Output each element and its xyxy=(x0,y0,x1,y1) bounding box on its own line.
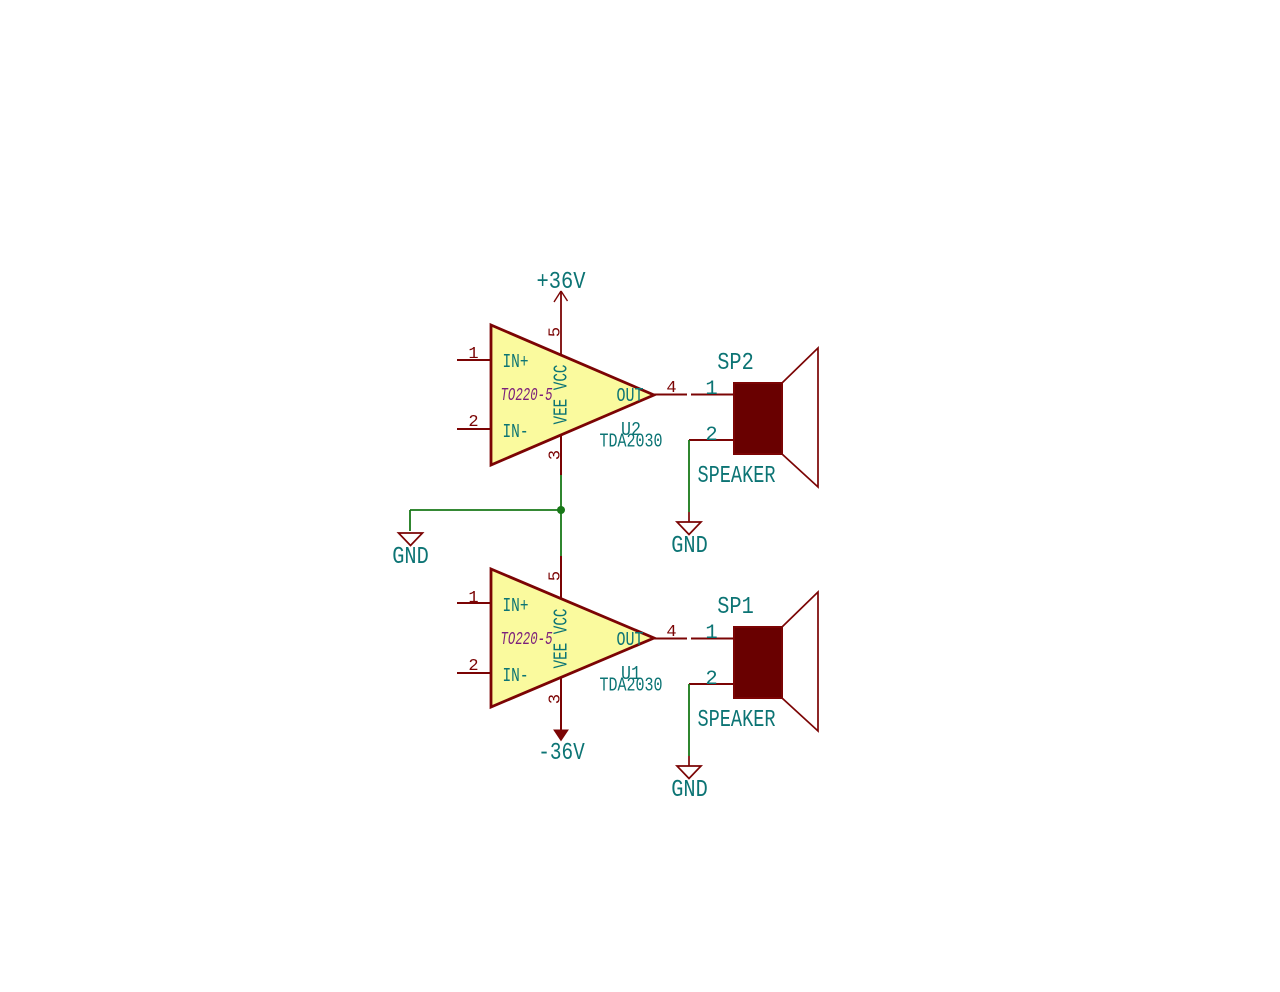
ground symbol SP2 xyxy=(677,512,701,535)
svg-text:2: 2 xyxy=(468,657,478,676)
svg-text:1: 1 xyxy=(468,345,478,364)
SP1 pin 2 line xyxy=(689,683,734,685)
U1 pin 3 line xyxy=(560,677,562,731)
wire SP1 pin2 to ground xyxy=(688,684,690,756)
U1 pin 1 wire stub xyxy=(457,602,491,604)
U1 pin 4 line xyxy=(654,638,687,640)
op-amp U1 body xyxy=(491,569,654,707)
ground symbol SP1 xyxy=(677,756,701,779)
svg-text:IN+: IN+ xyxy=(503,595,529,617)
svg-text:2: 2 xyxy=(468,413,478,432)
svg-text:2: 2 xyxy=(705,424,717,447)
SP2 cone xyxy=(782,348,818,487)
svg-text:4: 4 xyxy=(666,379,676,398)
svg-text:TO220-5: TO220-5 xyxy=(501,386,553,406)
svg-text:TDA2030: TDA2030 xyxy=(600,675,663,697)
svg-text:3: 3 xyxy=(547,694,566,704)
svg-text:OUT: OUT xyxy=(617,629,644,651)
U2 pin 1 wire stub xyxy=(457,359,491,361)
SP1 pin 1 line xyxy=(691,638,734,640)
svg-text:1: 1 xyxy=(705,378,717,401)
svg-text:SP1: SP1 xyxy=(717,594,754,621)
svg-text:3: 3 xyxy=(547,450,566,460)
wire U2 pin3 to junction xyxy=(560,475,562,510)
wire junction to U1 pin5 xyxy=(560,510,562,556)
svg-text:SPEAKER: SPEAKER xyxy=(698,463,776,490)
svg-text:VEE VCC: VEE VCC xyxy=(551,609,573,669)
SP2 pin 1 line xyxy=(691,394,734,396)
svg-text:GND: GND xyxy=(392,544,429,571)
op-amp U2 body xyxy=(491,325,654,465)
power symbol +36V arrow xyxy=(554,291,568,355)
svg-text:GND: GND xyxy=(671,533,708,560)
svg-text:1: 1 xyxy=(705,622,717,645)
SP1 body rectangle xyxy=(734,627,782,698)
svg-text:4: 4 xyxy=(666,623,676,642)
U1 pin 2 wire stub xyxy=(457,672,491,674)
svg-text:+36V: +36V xyxy=(537,269,587,296)
U2 pin 3 line xyxy=(560,436,562,475)
svg-text:5: 5 xyxy=(547,571,566,581)
wire down to GND symbol xyxy=(409,510,411,531)
ground symbol left xyxy=(399,533,423,546)
SP2 body rectangle xyxy=(734,383,782,454)
SP1 cone xyxy=(782,592,818,731)
SP2 pin 2 line xyxy=(689,439,734,441)
svg-text:1: 1 xyxy=(468,589,478,608)
wire SP2 pin2 to ground xyxy=(688,440,690,512)
junction dot xyxy=(557,506,565,514)
svg-text:TO220-5: TO220-5 xyxy=(501,630,553,650)
wire junction to GND (horizontal) xyxy=(410,509,561,511)
svg-text:5: 5 xyxy=(547,327,566,337)
svg-text:GND: GND xyxy=(671,777,708,804)
svg-text:IN+: IN+ xyxy=(503,351,529,373)
svg-text:-36V: -36V xyxy=(538,740,585,767)
svg-text:2: 2 xyxy=(705,668,717,691)
svg-text:SPEAKER: SPEAKER xyxy=(698,707,776,734)
power symbol -36V arrow xyxy=(554,730,568,741)
svg-text:VEE VCC: VEE VCC xyxy=(551,365,573,425)
U2 pin 4 line xyxy=(654,394,687,396)
svg-text:SP2: SP2 xyxy=(717,350,754,377)
svg-text:IN-: IN- xyxy=(503,665,529,687)
svg-text:IN-: IN- xyxy=(503,421,529,443)
U2 pin 2 wire stub xyxy=(457,428,491,430)
svg-text:TDA2030: TDA2030 xyxy=(600,431,663,453)
U1 pin 5 line xyxy=(560,556,562,599)
svg-text:OUT: OUT xyxy=(617,385,644,407)
